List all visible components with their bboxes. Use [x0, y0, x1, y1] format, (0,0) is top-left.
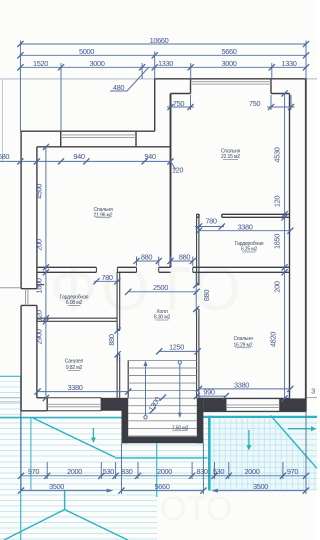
dim line 5000/5660 — [20, 54, 306, 56]
east slope arrow — [288, 428, 312, 430]
svg-text:1330: 1330 — [281, 59, 296, 68]
svg-text:3380: 3380 — [237, 222, 252, 231]
stair bay bottom wall — [122, 437, 204, 444]
ticks 780 U2 door — [196, 223, 202, 229]
svg-text:780: 780 — [101, 273, 113, 282]
right roof top eave — [203, 416, 317, 418]
dim 990 bedroom3 window — [197, 395, 226, 397]
svg-text:120: 120 — [35, 310, 44, 322]
right inner wall — [289, 94, 291, 399]
ticks 990 — [194, 393, 200, 399]
ticks 880 bathroom door — [115, 327, 121, 333]
ticks right vertical chain — [282, 90, 288, 96]
ticks bottom row B — [18, 488, 24, 494]
rotated vertical dim labels — [35, 147, 282, 413]
bottom dim 3500 right — [213, 490, 306, 492]
vertical dim 880 bathroom door — [117, 324, 119, 361]
wall top-left inner face — [37, 146, 171, 148]
stair treads — [128, 360, 196, 436]
svg-text:1520: 1520 — [33, 59, 48, 68]
ticks 1250 — [156, 348, 162, 354]
svg-text:Санузел: Санузел — [65, 359, 84, 365]
ticks row2 — [17, 52, 23, 58]
dimension ticks — [17, 41, 309, 494]
svg-text:3000: 3000 — [221, 59, 236, 68]
window W2 glazing — [191, 82, 272, 84]
left roof slope thin hatch — [0, 423, 317, 539]
svg-text:1330: 1330 — [158, 59, 173, 68]
svg-text:120: 120 — [172, 166, 184, 175]
svg-text:4820: 4820 — [269, 332, 278, 347]
svg-text:4530: 4530 — [273, 147, 282, 162]
dim 780 bedroom1 door — [94, 280, 120, 282]
svg-text:480: 480 — [113, 83, 125, 92]
window W1 jambs (top-left) — [61, 131, 136, 147]
svg-text:2000: 2000 — [244, 467, 259, 476]
left roof top edge line — [0, 375, 21, 377]
dim 3380 bathroom — [38, 391, 129, 393]
watermark — [50, 255, 245, 528]
wall top-right inner face segments — [171, 93, 290, 95]
dim 880 door hall left — [137, 260, 159, 262]
svg-text:940: 940 — [73, 152, 85, 161]
wall step between top walls — [154, 79, 156, 131]
svg-text:Спальня: Спальня — [233, 336, 253, 342]
bottom wall right inner face — [199, 397, 290, 399]
left outer wall — [20, 131, 22, 411]
svg-text:120: 120 — [273, 196, 282, 208]
window glazing lines — [26, 82, 280, 408]
ticks bottom row A — [18, 473, 24, 479]
bottom wall left inner face — [37, 397, 47, 399]
svg-text:830: 830 — [121, 467, 133, 476]
poché solid wall blocks — [101, 398, 305, 443]
right hip diagonal — [271, 415, 317, 468]
svg-text:3380: 3380 — [67, 383, 82, 392]
dim 780 wardrobe U2 door — [195, 226, 224, 228]
wall top-left outer face — [20, 130, 154, 132]
svg-text:1800: 1800 — [35, 278, 44, 293]
svg-text:880: 880 — [202, 290, 211, 302]
svg-text:880: 880 — [179, 253, 191, 262]
svg-text:3500: 3500 — [49, 482, 64, 491]
right margin line — [306, 397, 317, 399]
dim 2500 hall — [128, 291, 196, 293]
svg-text:680: 680 — [0, 152, 9, 161]
ticks 3380 bedroom3 — [196, 386, 202, 392]
svg-text:200: 200 — [273, 281, 282, 293]
svg-text:2000: 2000 — [157, 467, 172, 476]
stair down-flight arrow — [178, 361, 182, 418]
ticks row1 — [17, 41, 23, 47]
svg-text:10660: 10660 — [150, 36, 169, 45]
stair bay right wall — [197, 398, 204, 443]
svg-text:970: 970 — [28, 467, 40, 476]
ticks 680/940 chain — [17, 158, 23, 164]
120 leader tick line — [171, 161, 177, 170]
window W4 glazing — [47, 404, 101, 407]
extension lines top — [20, 41, 306, 132]
dim line 10660 — [20, 43, 306, 45]
right roof panel tint — [211, 418, 318, 491]
480 leader — [110, 68, 149, 92]
solid pier bottom right corner — [280, 398, 306, 411]
lower-floor roof edge line top-left — [0, 78, 155, 80]
left inner wall — [36, 147, 38, 398]
svg-text:200: 200 — [35, 239, 44, 251]
ticks 3380 U2 — [196, 228, 202, 234]
dim 750 right — [267, 106, 295, 108]
left slope arrow — [92, 428, 94, 439]
right roof vertical hatch — [214, 419, 315, 491]
ticks 880 bedroom3 door — [193, 282, 199, 288]
svg-text:2000: 2000 — [67, 467, 82, 476]
left hip diagonal — [33, 418, 115, 457]
svg-text:750: 750 — [173, 99, 185, 108]
svg-text:750: 750 — [249, 99, 261, 108]
lower eave under stair bay — [115, 457, 208, 459]
middle wall door caps — [96, 267, 192, 272]
ext stubs 880 doors — [137, 257, 193, 267]
svg-text:940: 940 — [144, 152, 156, 161]
svg-text:ФОТО: ФОТО — [50, 255, 245, 324]
bottom row A extension stubs — [21, 412, 306, 495]
window W4 top/bottom edges — [47, 398, 101, 411]
right slope arrow — [248, 430, 250, 446]
ticks left vertical chain — [43, 144, 49, 150]
svg-text:830: 830 — [196, 467, 208, 476]
svg-text:1250: 1250 — [169, 343, 184, 352]
dim chain 680/940/940/120 — [0, 160, 171, 162]
wardrobe U1 shelf stub — [37, 284, 44, 286]
wardrobe U1 / bathroom wall — [37, 318, 117, 321]
window W2 jambs (top-right) — [191, 79, 272, 94]
window W1 glazing — [61, 135, 136, 138]
svg-text:1850: 1850 — [273, 234, 282, 249]
bottom wall left outer face — [21, 410, 47, 412]
right outer wall — [305, 79, 307, 412]
svg-text:3380: 3380 — [234, 380, 249, 389]
ticks row3 — [17, 64, 23, 70]
wardrobe U2 / hall wall — [197, 214, 199, 398]
left main eave — [0, 417, 122, 419]
svg-text:530: 530 — [213, 467, 225, 476]
dim 3380 bedroom3 — [199, 388, 290, 390]
ticks 880 doors — [133, 258, 139, 264]
right roof left border — [208, 416, 211, 491]
ticks 780 bedroom1 — [93, 278, 99, 284]
bottom dim 5660 center — [122, 490, 204, 492]
stair bay left wall — [122, 398, 129, 443]
vertical dim 880 bedroom3 door — [195, 272, 197, 315]
left margin lower-roof thin hatch — [0, 381, 21, 414]
bay edge extensions — [122, 443, 204, 494]
bottom dim row A — [21, 475, 306, 477]
3500 left arrowhead — [107, 489, 114, 493]
3500 right arrowhead — [211, 489, 218, 493]
window W5 glazing — [226, 405, 280, 408]
svg-text:970: 970 — [287, 467, 299, 476]
stair up-flight arrow — [143, 361, 147, 419]
dim line 1520/3000/480/1330/3000/1330 — [20, 66, 306, 68]
dim 3380 wardrobe U2 — [199, 230, 290, 232]
left roof wall-edge vertical — [20, 376, 22, 540]
ticks 3380 bathroom — [34, 389, 40, 395]
lower-floor roof edge line top-right — [306, 78, 317, 80]
svg-text:530: 530 — [103, 467, 115, 476]
svg-text:ОТО: ОТО — [160, 490, 232, 528]
svg-text:990: 990 — [203, 388, 215, 397]
ext stubs 750 — [191, 95, 292, 110]
svg-text:5660: 5660 — [221, 47, 236, 56]
left margin lower wall edge lines — [0, 398, 21, 402]
wall top-right outer face — [155, 78, 306, 80]
svg-text:3000: 3000 — [89, 59, 104, 68]
wardrobe U2 top wall — [197, 214, 290, 217]
vertical dim line right (4530/120/1850/200/4820) — [284, 94, 286, 399]
svg-text:5660: 5660 — [154, 482, 169, 491]
svg-text:880: 880 — [141, 253, 153, 262]
bathroom right wall — [117, 272, 120, 398]
left margin sill line — [0, 287, 21, 289]
bottom wall right outer face — [203, 410, 305, 412]
svg-text:5000: 5000 — [79, 47, 94, 56]
left roof inner vertical — [30, 418, 32, 491]
dim 880 door hall right — [171, 260, 193, 262]
svg-text:2500: 2500 — [153, 283, 168, 292]
bottom dim 3500 left — [21, 490, 111, 492]
ticks 750s — [167, 104, 173, 110]
solid pier left of stair bay — [101, 398, 121, 411]
bedroom divider partition — [170, 94, 172, 268]
ridge under bay — [156, 443, 158, 497]
dim 750 left — [167, 106, 194, 108]
svg-text:780: 780 — [205, 216, 217, 225]
solid pier right of stair bay — [203, 398, 225, 411]
svg-text:4500: 4500 — [35, 184, 44, 199]
window W5 jambs (bedroom3 bottom) — [226, 398, 280, 411]
middle wall band upper line — [37, 266, 290, 268]
window W4 jambs (bathroom bottom) — [47, 398, 101, 411]
ticks 2500 — [125, 289, 131, 295]
svg-text:2900: 2900 — [35, 329, 44, 344]
svg-text:3500: 3500 — [253, 482, 268, 491]
svg-text:880: 880 — [107, 334, 116, 346]
svg-text:3: 3 — [311, 387, 315, 396]
middle wall band lower line — [37, 271, 290, 273]
vertical dim line left (4500/200/1800/120/2900) — [45, 147, 47, 398]
stairwell edge — [127, 360, 129, 397]
ticks stairs diag dim — [149, 407, 155, 413]
window W3 jambs (left wall) — [21, 289, 37, 306]
dim 1250 stairs — [159, 350, 198, 352]
window W3 glazing — [26, 289, 28, 306]
bay-window pyramid roof — [4, 490, 128, 540]
left margin faint extension vertical — [2, 79, 4, 161]
